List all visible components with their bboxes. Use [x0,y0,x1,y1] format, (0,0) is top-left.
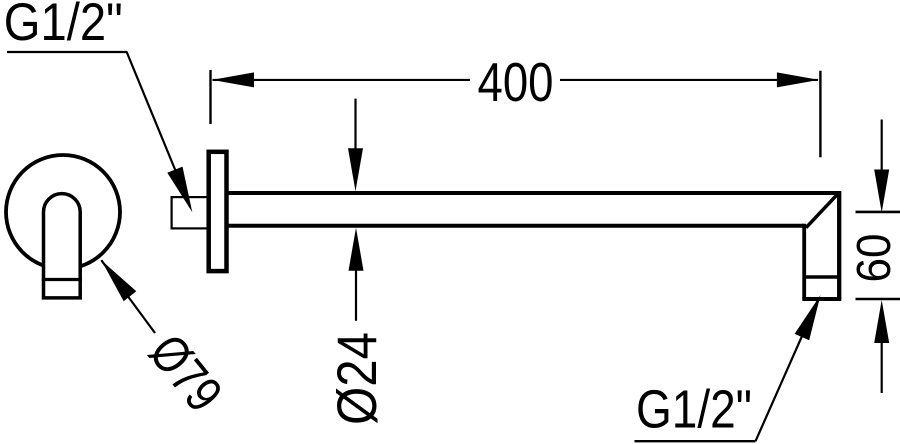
dim 60 bottom tick [856,298,900,301]
dim 24 lower shaft [355,269,357,321]
svg-text:G1/2": G1/2" [4,0,123,52]
svg-text:60: 60 [848,234,900,283]
nut band line front view [42,278,82,281]
outlet bottom edge [802,297,841,301]
dim 60 upper arrowhead [874,170,889,213]
svg-text:Ø24: Ø24 [325,332,388,425]
dim 400 left arrowhead [212,72,254,87]
svg-text:G1/2": G1/2" [636,380,752,440]
drop left edge [802,224,806,299]
leader arrowhead top-left [167,167,192,213]
dim 400 left extension line [209,70,211,124]
wall flange plate side view [209,152,227,271]
arm top edge [228,191,839,195]
svg-text:400: 400 [478,51,554,113]
arm bottom edge [228,224,804,228]
leader line diameter 79 [101,260,155,333]
leader arrowhead diameter 79 [101,260,136,301]
leader line bottom-right [756,300,819,441]
elbow mitre line [806,193,839,228]
dim 24 lower arrowhead [349,228,364,271]
dim 400 line right segment [560,79,818,81]
leader underline bottom-right [635,440,756,442]
dim 60 lower arrowhead [874,300,889,343]
outlet band line [804,275,839,279]
leader line top-left [127,52,189,202]
arm stub front view (U shape) [44,194,81,298]
flange circle front view [6,155,120,269]
drop right edge [837,191,841,299]
dim 60 top tick [856,211,900,214]
leader underline top-left [7,51,127,53]
dim 400 right extension line [819,71,821,158]
dim 400 right arrowhead [777,72,819,87]
leader arrowhead bottom-right [795,295,821,340]
dim 60 lower shaft [881,342,883,393]
wall pipe stub side view [172,197,208,228]
dim 24 upper shaft [354,99,356,150]
dim 24 upper arrowhead [348,148,363,191]
dim 400 line left segment [213,79,471,81]
dim 60 upper shaft [881,120,883,171]
